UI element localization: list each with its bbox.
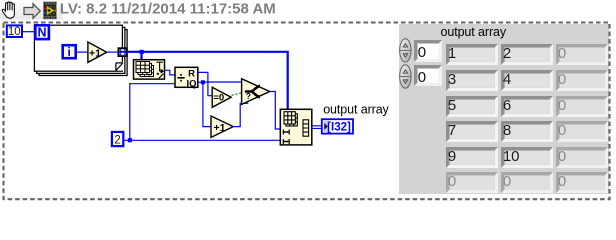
quotient and remainder node — [175, 67, 198, 89]
array cell r3c1 value 5 — [446, 96, 498, 117]
svg-text:N: N — [37, 25, 46, 39]
wire increment to tunnel — [107, 51, 119, 53]
array cell r5c1 value 9 — [446, 147, 498, 168]
toolbar background strip — [0, 0, 63, 20]
svg-text:?: ? — [246, 91, 251, 101]
increment node +1 inside loop — [88, 42, 107, 62]
svg-text:[I32]: [I32] — [327, 122, 351, 134]
array cell r3c3 dim 0 — [556, 96, 608, 117]
array cell r1c1 value 1 — [446, 44, 498, 65]
array cell r6c2 dim 0 — [501, 172, 553, 193]
array cell r5c3 dim 0 — [556, 147, 608, 168]
reshape array node — [280, 109, 312, 145]
for loop front frame — [34, 25, 122, 71]
svg-text:2: 2 — [114, 135, 120, 147]
front panel gray background — [399, 24, 609, 194]
array cell r1c3 dim 0 — [556, 44, 608, 65]
array cell r5c2 value 10 — [501, 147, 553, 168]
svg-text:+1: +1 — [214, 122, 226, 134]
svg-text:output array: output array — [323, 102, 389, 116]
iteration terminal i — [63, 45, 76, 59]
wire remainder to equal zero — [198, 72, 212, 95]
wire i to increment — [77, 51, 88, 53]
wire select to reshape dim input — [270, 92, 281, 130]
array cell r4c2 value 8 — [501, 121, 553, 142]
array cell r6c3 dim 0 — [556, 172, 608, 193]
for loop back frame 1 — [37, 27, 125, 73]
wire branch down to array size — [140, 52, 142, 60]
wire increment 2 to select f input — [233, 103, 248, 126]
increment node +1 lower — [211, 116, 233, 137]
index spinner 2 — [400, 65, 411, 88]
array cell r4c3 dim 0 — [556, 121, 608, 142]
wire array main (tunnel to reshape, thick) — [127, 52, 288, 110]
array size node — [134, 60, 165, 79]
array cell r4c1 value 7 — [446, 121, 498, 142]
svg-text:LV: 8.2 11/21/2014 11:17:58 AM: LV: 8.2 11/21/2014 11:17:58 AM — [60, 1, 276, 18]
snippet dashed border — [4, 23, 610, 200]
wire 10 to N — [23, 31, 35, 33]
wire junction on 2 — [128, 138, 132, 142]
wire 2 to junction — [124, 139, 281, 141]
wire array size to quotient remainder — [165, 70, 176, 75]
wire junction at array size branch — [140, 50, 144, 54]
array cell r2c1 value 3 — [446, 70, 498, 91]
wire quotient to select t input — [198, 81, 242, 83]
indicator terminal output array I32 — [322, 119, 353, 133]
loop count terminal N — [35, 25, 49, 39]
svg-text:+1: +1 — [89, 47, 101, 59]
svg-text:IQ: IQ — [186, 78, 196, 89]
equal to zero node — [212, 87, 231, 107]
position tool arrow icon — [24, 4, 40, 19]
numeric constant 10 — [7, 25, 22, 38]
array cell r6c1 dim 0 — [446, 172, 498, 193]
wire quotient down to increment 2 — [203, 82, 211, 126]
operate tool hand icon — [2, 2, 14, 18]
svg-text:i: i — [68, 45, 71, 59]
array index display 1 value 0 — [414, 40, 443, 62]
svg-text:10: 10 — [8, 26, 21, 38]
wire junction on quotient — [201, 80, 205, 84]
boolean wire equal zero to select — [232, 93, 242, 95]
VI snippet icon — [43, 2, 57, 20]
numeric constant 2 — [112, 132, 123, 147]
array cell r2c2 value 4 — [501, 70, 553, 91]
index spinner 1 — [400, 39, 411, 62]
front panel label output array — [441, 25, 507, 39]
wire 2 up to quotient remainder y input — [130, 84, 175, 140]
array cell r3c2 value 6 — [501, 96, 553, 117]
select node — [242, 79, 270, 105]
svg-text:÷: ÷ — [177, 70, 185, 86]
for loop back frame 2 — [39, 30, 127, 76]
array cell r1c2 value 2 — [501, 44, 553, 65]
auto-index tunnel — [118, 48, 126, 56]
array cell r2c3 dim 0 — [556, 70, 608, 91]
wire 2d array reshape to indicator (double line) — [312, 126, 322, 129]
for loop page curl — [115, 62, 124, 71]
svg-text:=0: =0 — [213, 93, 224, 104]
array index display 2 value 0 — [414, 65, 443, 87]
